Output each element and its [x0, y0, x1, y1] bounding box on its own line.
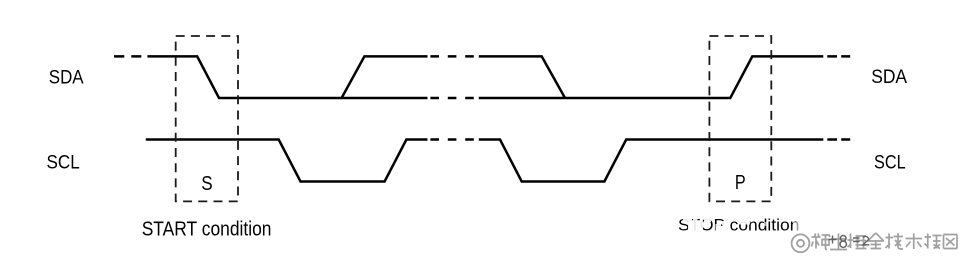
wire SDA middle high plateau resume and falling edge [479, 56, 565, 98]
svg-text:SDA: SDA [871, 66, 907, 88]
svg-text:START condition: START condition [142, 219, 272, 241]
svg-text:P: P [735, 172, 746, 194]
svg-text:SCL: SCL [874, 152, 906, 174]
SDA right lead-out dashes [827, 55, 850, 58]
wire SDA high segment with START falling edge and low run [147, 56, 427, 98]
wire SCL high plateau dashed break [430, 138, 473, 141]
SDA left lead-in dashes [114, 55, 141, 58]
STOP condition dashed box [709, 36, 771, 201]
wire SCL plateau resume, second low pulse, final high run [479, 140, 824, 182]
watermark dark remnant marks [829, 236, 870, 248]
wire SDA low resume and STOP rising edge to high [479, 56, 824, 98]
watermark @ sign [792, 234, 810, 252]
START condition dashed box [176, 36, 238, 201]
wire SDA middle high plateau dashed break [430, 55, 473, 58]
wire SDA low dashed break [430, 97, 473, 100]
wire SDA middle high pulse rising edge and plateau [342, 56, 428, 98]
svg-text:S: S [201, 173, 212, 195]
wire SCL left high segment, clock low pulse, rise to plateau [146, 140, 428, 182]
SCL right lead-out dashes [827, 138, 850, 141]
watermark erosion patches over STOP text [683, 214, 801, 234]
svg-text:SDA: SDA [49, 66, 84, 88]
svg-text:SCL: SCL [47, 152, 80, 174]
watermark CJK glyph strokes [812, 233, 958, 250]
